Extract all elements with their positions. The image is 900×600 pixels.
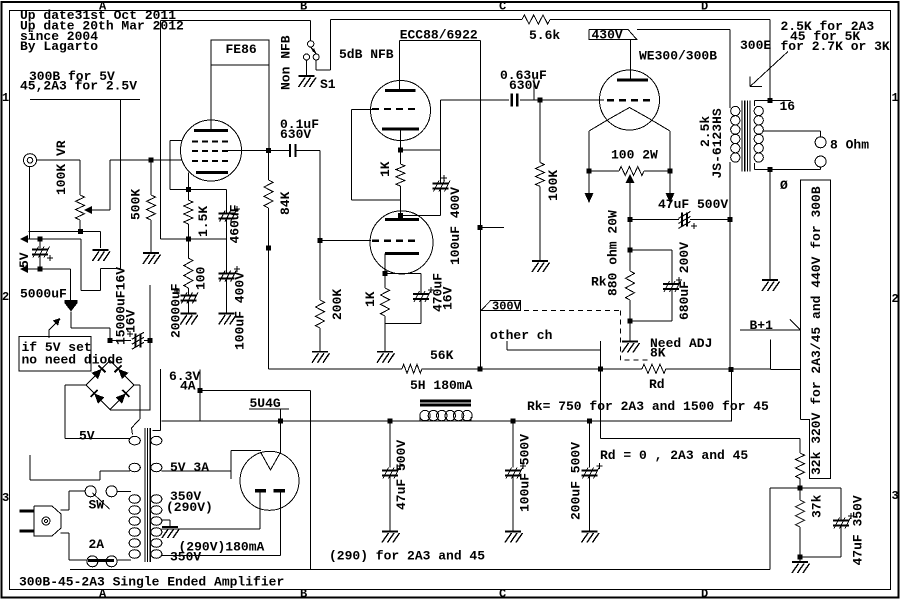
svg-text:5V 3A: 5V 3A [170, 460, 209, 475]
svg-text:16V: 16V [441, 286, 456, 310]
svg-text:47uF 500V: 47uF 500V [394, 440, 409, 510]
svg-text:100uF 400V: 100uF 400V [448, 187, 463, 265]
svg-text:5000uF: 5000uF [20, 287, 67, 302]
svg-text:100uF 500V: 100uF 500V [518, 434, 533, 512]
svg-text:16: 16 [780, 99, 796, 114]
svg-text:45,2A3 for 2.5V: 45,2A3 for 2.5V [20, 79, 137, 94]
svg-text:2: 2 [2, 290, 9, 304]
svg-text:3: 3 [892, 489, 899, 503]
svg-text:B: B [300, 587, 307, 600]
svg-text:1K: 1K [378, 161, 393, 177]
svg-text:37k: 37k [810, 494, 825, 518]
svg-text:5dB NFB: 5dB NFB [339, 47, 394, 62]
svg-text:430V: 430V [592, 28, 623, 43]
svg-text:C: C [499, 587, 506, 600]
svg-text:Rd: Rd [649, 377, 665, 392]
svg-text:for 2.7K or 3K: for 2.7K or 3K [781, 39, 890, 54]
svg-text:B: B [300, 0, 307, 14]
svg-text:5.6k: 5.6k [529, 28, 560, 43]
svg-text:56K: 56K [430, 348, 454, 363]
svg-text:84K: 84K [278, 191, 293, 215]
svg-text:2A: 2A [89, 537, 105, 552]
svg-text:Non NFB: Non NFB [279, 35, 294, 90]
svg-text:8K: 8K [650, 346, 666, 361]
svg-text:Rk: Rk [591, 274, 607, 289]
svg-text:100uF 400V: 100uF 400V [233, 272, 248, 350]
svg-text:32k 320V for 2A3/45 and 440V f: 32k 320V for 2A3/45 and 440V for 300B [809, 186, 824, 475]
svg-text:Ø: Ø [780, 178, 788, 193]
svg-text:350V: 350V [170, 550, 201, 565]
svg-text:630V: 630V [509, 78, 540, 93]
svg-text:1: 1 [2, 91, 9, 105]
svg-text:5H 180mA: 5H 180mA [410, 378, 473, 393]
svg-text:B+1: B+1 [750, 318, 774, 333]
svg-text:FE86: FE86 [226, 42, 257, 57]
svg-text:D: D [701, 587, 708, 600]
svg-text:no need diode: no need diode [22, 353, 124, 368]
svg-text:300B-45-2A3 Single Ended Ampli: 300B-45-2A3 Single Ended Amplifier [19, 575, 284, 590]
svg-text:680uF 200V: 680uF 200V [677, 242, 692, 320]
svg-text:By Lagarto: By Lagarto [20, 39, 98, 54]
svg-text:1: 1 [892, 91, 899, 105]
svg-text:5V: 5V [17, 252, 32, 268]
svg-text:1.5K: 1.5K [196, 206, 211, 237]
svg-text:Rd = 0 , 2A3 and 45: Rd = 0 , 2A3 and 45 [600, 448, 748, 463]
svg-text:SW: SW [89, 498, 105, 513]
svg-text:C: C [499, 0, 506, 14]
svg-text:(290V): (290V) [166, 500, 213, 515]
svg-text:16V: 16V [124, 309, 139, 333]
svg-text:3: 3 [2, 491, 9, 505]
svg-text:630V: 630V [280, 127, 311, 142]
svg-text:4A: 4A [180, 379, 196, 394]
svg-text:8 Ohm: 8 Ohm [830, 138, 869, 153]
svg-text:S1: S1 [320, 77, 336, 92]
svg-text:5V: 5V [79, 429, 95, 444]
svg-text:JS-6123HS: JS-6123HS [710, 108, 725, 178]
svg-text:100K VR: 100K VR [54, 140, 69, 195]
svg-text:(290) for 2A3 and 45: (290) for 2A3 and 45 [329, 549, 485, 564]
svg-text:500K: 500K [129, 189, 144, 220]
svg-text:100 2W: 100 2W [611, 148, 658, 163]
svg-text:100: 100 [194, 266, 209, 290]
svg-text:100K: 100K [546, 170, 561, 201]
svg-text:1K: 1K [363, 291, 378, 307]
svg-text:20000uF: 20000uF [169, 283, 184, 338]
svg-text:47uF 500V: 47uF 500V [658, 197, 728, 212]
svg-text:WE300/300B: WE300/300B [639, 49, 717, 64]
svg-text:D: D [701, 0, 708, 14]
svg-text:2: 2 [892, 292, 899, 306]
svg-text:200uF 500V: 200uF 500V [569, 442, 584, 520]
svg-text:47uF 350V: 47uF 350V [851, 495, 866, 565]
svg-text:other ch: other ch [490, 328, 553, 343]
svg-text:Rk= 750 for 2A3 and 1500 for 4: Rk= 750 for 2A3 and 1500 for 45 [527, 399, 769, 414]
svg-text:300V: 300V [492, 299, 522, 313]
svg-text:200K: 200K [330, 289, 345, 320]
svg-text:300E: 300E [740, 38, 771, 53]
svg-text:880 ohm 20W: 880 ohm 20W [606, 210, 621, 296]
svg-text:460uF: 460uF [228, 204, 243, 243]
